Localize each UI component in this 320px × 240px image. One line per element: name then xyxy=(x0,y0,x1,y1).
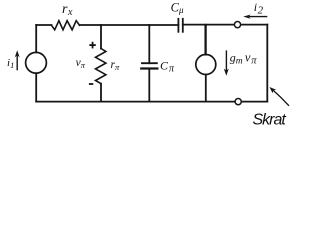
svg-text:Cπ: Cπ xyxy=(160,59,175,75)
svg-text:vπ: vπ xyxy=(76,57,86,70)
svg-text:i1: i1 xyxy=(7,57,14,70)
svg-text:gmvπ: gmvπ xyxy=(230,50,257,66)
svg-text:rx: rx xyxy=(62,2,73,18)
svg-text:Skrat: Skrat xyxy=(253,112,287,129)
svg-text:Cμ: Cμ xyxy=(171,0,184,15)
svg-text:rπ: rπ xyxy=(111,59,120,72)
svg-text:i2: i2 xyxy=(254,0,264,16)
